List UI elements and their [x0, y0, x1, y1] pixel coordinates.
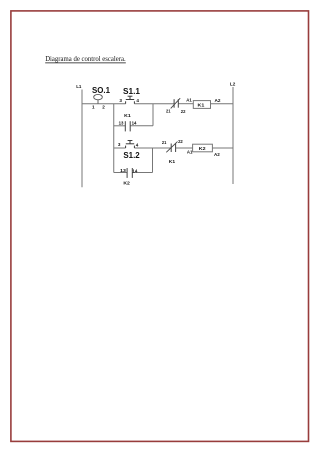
svg-text:A2: A2 [215, 98, 221, 103]
svg-text:K1: K1 [198, 103, 205, 108]
svg-text:14: 14 [132, 168, 137, 173]
svg-text:13: 13 [120, 168, 126, 173]
svg-text:13: 13 [119, 120, 124, 125]
svg-text:A2: A2 [214, 152, 220, 157]
svg-text:A1: A1 [187, 150, 193, 155]
svg-text:22: 22 [181, 109, 186, 114]
svg-text:4: 4 [136, 142, 139, 147]
svg-text:K2: K2 [199, 146, 206, 151]
svg-text:S1.1: S1.1 [123, 86, 140, 96]
svg-text:K1: K1 [124, 113, 131, 118]
svg-text:A1: A1 [186, 97, 192, 102]
svg-text:21: 21 [162, 140, 167, 145]
svg-text:3: 3 [118, 142, 121, 147]
svg-text:1: 1 [92, 105, 95, 110]
svg-text:22: 22 [178, 139, 183, 144]
svg-text:4: 4 [136, 98, 139, 103]
svg-text:L2: L2 [230, 82, 236, 87]
svg-text:14: 14 [132, 120, 137, 125]
svg-text:Diagrama de control escalera.: Diagrama de control escalera. [45, 54, 126, 63]
svg-text:3: 3 [119, 98, 122, 103]
svg-text:SO.1: SO.1 [92, 85, 110, 95]
svg-text:K2: K2 [123, 180, 130, 185]
svg-text:2: 2 [102, 105, 105, 110]
svg-text:L1: L1 [76, 84, 82, 89]
svg-text:S1.2: S1.2 [123, 150, 140, 160]
svg-text:K1: K1 [169, 159, 176, 164]
svg-text:21: 21 [166, 108, 171, 113]
